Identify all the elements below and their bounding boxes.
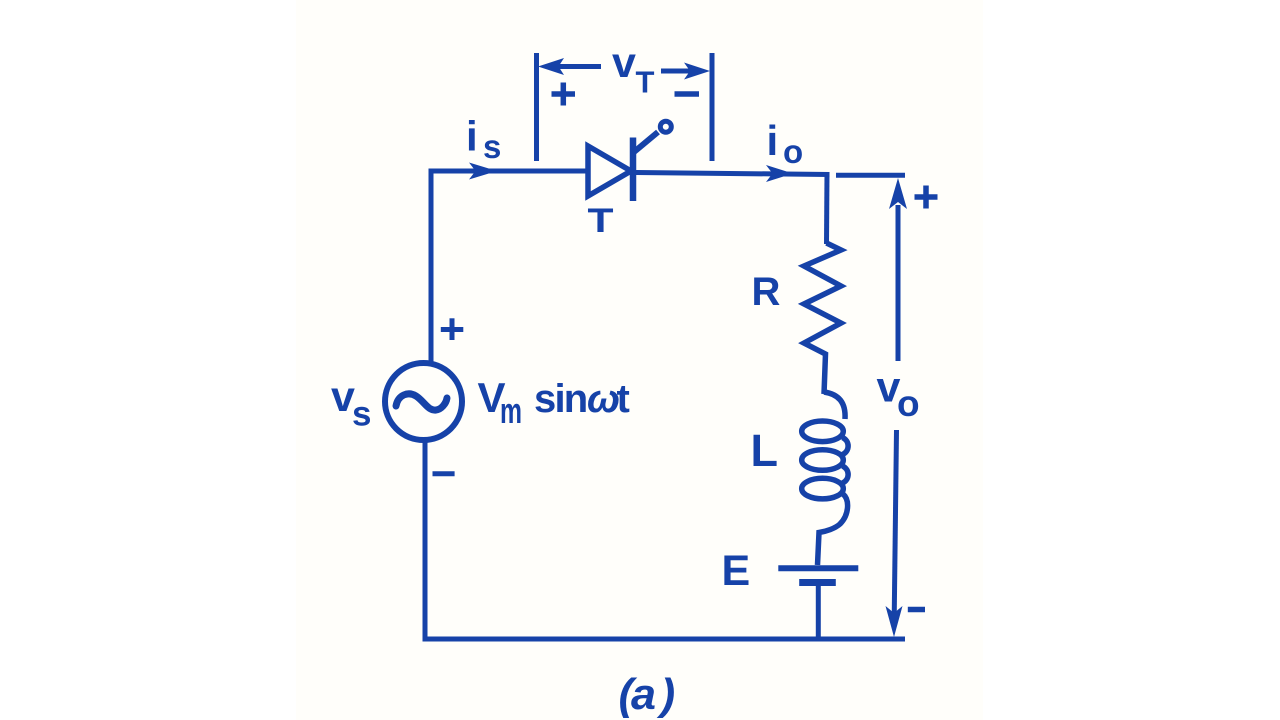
- vo minus sign: [908, 607, 925, 613]
- battery E top plate: [778, 565, 858, 571]
- label Vm sin wt: [478, 374, 630, 431]
- wire left vertical upper (top corner to source +): [429, 169, 434, 365]
- resistor R: [804, 243, 841, 394]
- wire right vertical (corner down to resistor): [824, 172, 830, 244]
- inductor L loop 3: [802, 478, 844, 499]
- svg-text:s: s: [483, 128, 501, 165]
- inductor L top arc: [824, 392, 845, 419]
- wire top-left horizontal (source to thyristor): [429, 169, 589, 174]
- inductor L loop 2: [802, 450, 844, 471]
- label io: [767, 117, 804, 170]
- vo plus sign: [915, 186, 938, 209]
- source plus sign: [441, 318, 464, 340]
- svg-text:T: T: [588, 202, 614, 240]
- svg-text:i: i: [767, 117, 779, 164]
- thyristor T cathode bar: [630, 138, 637, 202]
- inductor L loop 1: [802, 421, 844, 442]
- wire battery to bottom: [816, 586, 821, 641]
- svg-text:o: o: [783, 133, 803, 170]
- thyristor gate terminal circle: [660, 121, 671, 132]
- ac source vs circle: [385, 363, 462, 440]
- inductor L connector arc 2: [843, 466, 849, 483]
- vo arrow lower segment: [886, 430, 903, 637]
- label vT: [612, 39, 655, 100]
- wire vo top stub: [836, 173, 905, 178]
- vT left arrow: [538, 58, 601, 75]
- svg-text:E: E: [722, 547, 751, 595]
- source minus sign: [433, 471, 455, 476]
- svg-text:R: R: [752, 270, 781, 314]
- label is: [466, 113, 501, 166]
- thyristor gate lead: [634, 132, 658, 152]
- svg-text:v: v: [612, 39, 636, 87]
- wire bottom horizontal: [423, 637, 906, 642]
- wire left vertical lower (source - to bottom corner): [423, 440, 428, 642]
- vo arrow upper segment: [889, 178, 907, 361]
- svg-text:): ): [657, 670, 676, 719]
- label vs: [331, 373, 371, 434]
- svg-text:s: s: [352, 395, 371, 434]
- svg-text:i: i: [466, 113, 478, 160]
- svg-text:L: L: [751, 425, 779, 476]
- thyristor T anode triangle: [588, 146, 631, 196]
- battery E bottom plate: [799, 579, 836, 586]
- inductor L connector arc 1: [843, 438, 849, 455]
- svg-text:T: T: [636, 65, 655, 100]
- svg-text:m: m: [500, 390, 522, 431]
- inductor L bottom arc: [818, 494, 848, 565]
- current arrow io head: [766, 165, 793, 182]
- wire thyristor to top-right corner: [636, 173, 830, 175]
- svg-text:sin: sin: [534, 377, 586, 421]
- svg-text:ω: ω: [587, 377, 620, 421]
- svg-text:a: a: [631, 670, 656, 719]
- label vo: [877, 364, 920, 425]
- vT minus sign: [675, 91, 700, 97]
- vT measurement left tick: [534, 53, 539, 161]
- current arrow is head: [469, 163, 497, 180]
- vT plus sign: [552, 83, 576, 106]
- vT right arrow: [661, 63, 710, 80]
- svg-text:o: o: [897, 383, 920, 424]
- vT measurement right tick: [710, 53, 715, 161]
- svg-text:t: t: [617, 377, 630, 421]
- ac source sine wave: [396, 394, 447, 410]
